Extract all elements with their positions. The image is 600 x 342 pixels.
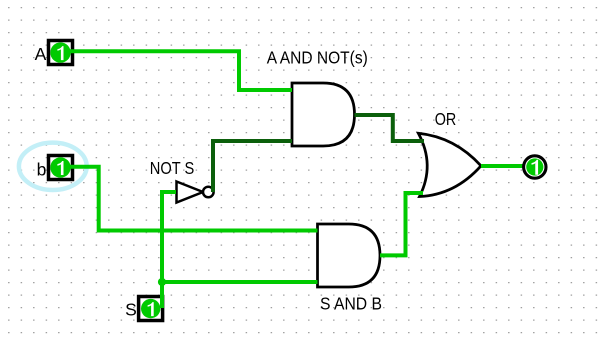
wire lower AND output to OR gate input [380,193,423,255]
input pin b [49,156,73,180]
input pin A [49,41,73,65]
svg-text:b: b [37,159,47,179]
wire S up to NOT gate input [162,192,176,308]
wire NOT gate output to upper AND gate input (logic 0) [213,141,292,192]
NOT gate "NOT S" [177,182,214,203]
wire OR gate output to output pin [481,164,524,168]
output pin [524,156,546,178]
svg-text:NOT S: NOT S [150,158,195,178]
selection halo around pin b [19,143,87,190]
OR gate [418,133,481,196]
wire junction to lower AND gate input [162,280,318,284]
svg-text:A AND NOT(s): A AND NOT(s) [267,48,368,68]
svg-text:S AND B: S AND B [320,293,382,313]
svg-text:S: S [125,300,137,320]
junction node on S wire [158,278,166,286]
wire b to lower AND gate input [70,167,318,231]
svg-text:A: A [35,44,47,64]
wire upper AND output to OR gate input (logic 0) [355,115,425,141]
AND gate "S AND B" [318,224,381,287]
AND gate "A AND NOT(s)" [292,83,355,146]
svg-text:OR: OR [435,109,457,129]
input pin S [139,297,163,321]
wire A to upper AND gate input [70,51,293,90]
